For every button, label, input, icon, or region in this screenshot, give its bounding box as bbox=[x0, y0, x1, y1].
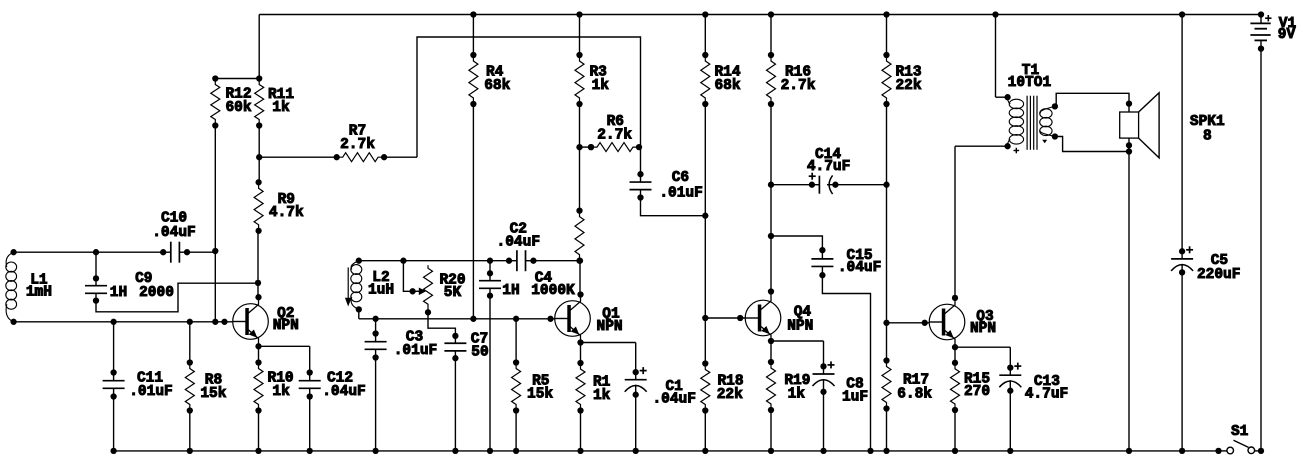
svg-text:.04uF: .04uF bbox=[322, 384, 366, 400]
svg-text:9V: 9V bbox=[1278, 27, 1296, 43]
svg-text:1H: 1H bbox=[110, 285, 127, 301]
svg-text:NPN: NPN bbox=[970, 321, 996, 337]
svg-text:220uF: 220uF bbox=[1197, 267, 1241, 283]
svg-text:2.7k: 2.7k bbox=[781, 78, 816, 94]
svg-text:4.7uF: 4.7uF bbox=[807, 159, 851, 175]
svg-text:1mH: 1mH bbox=[26, 285, 52, 301]
svg-text:1uH: 1uH bbox=[368, 283, 394, 299]
svg-text:.01uF: .01uF bbox=[129, 384, 173, 400]
svg-text:6.8k: 6.8k bbox=[897, 387, 932, 403]
svg-text:1H: 1H bbox=[502, 283, 519, 299]
svg-text:.04uF: .04uF bbox=[497, 235, 541, 251]
svg-text:NPN: NPN bbox=[597, 319, 623, 335]
svg-text:15k: 15k bbox=[527, 387, 553, 403]
svg-text:2.7k: 2.7k bbox=[340, 137, 375, 153]
svg-text:68k: 68k bbox=[714, 78, 740, 94]
svg-text:8: 8 bbox=[1203, 129, 1212, 145]
svg-text:1k: 1k bbox=[272, 100, 290, 116]
svg-text:.04uF: .04uF bbox=[838, 260, 882, 276]
svg-text:1000K: 1000K bbox=[531, 283, 575, 299]
svg-text:S1: S1 bbox=[1231, 424, 1249, 440]
svg-text:.01uF: .01uF bbox=[659, 186, 703, 202]
svg-text:5K: 5K bbox=[444, 285, 462, 301]
svg-text:4.7k: 4.7k bbox=[269, 205, 304, 221]
svg-text:68k: 68k bbox=[484, 78, 510, 94]
svg-text:1k: 1k bbox=[788, 387, 806, 403]
svg-text:22k: 22k bbox=[895, 78, 921, 94]
svg-text:4.7uF: 4.7uF bbox=[1025, 387, 1069, 403]
svg-text:C6: C6 bbox=[672, 170, 689, 186]
svg-text:22k: 22k bbox=[717, 387, 743, 403]
svg-text:NPN: NPN bbox=[787, 319, 813, 335]
svg-text:.04uF: .04uF bbox=[652, 392, 696, 408]
svg-text:1k: 1k bbox=[592, 78, 610, 94]
svg-text:1k: 1k bbox=[593, 388, 611, 404]
svg-text:1k: 1k bbox=[272, 384, 290, 400]
svg-text:50: 50 bbox=[471, 345, 488, 361]
svg-text:2000: 2000 bbox=[139, 285, 174, 301]
svg-text:60k: 60k bbox=[225, 100, 251, 116]
svg-text:2.7k: 2.7k bbox=[597, 128, 632, 144]
svg-text:.04uF: .04uF bbox=[152, 225, 196, 241]
svg-text:NPN: NPN bbox=[273, 318, 299, 334]
svg-text:1uF: 1uF bbox=[842, 390, 868, 406]
svg-text:15k: 15k bbox=[200, 386, 226, 402]
svg-text:.01uF: .01uF bbox=[394, 343, 438, 359]
svg-text:270: 270 bbox=[964, 384, 990, 400]
svg-text:10TO1: 10TO1 bbox=[1008, 75, 1052, 91]
